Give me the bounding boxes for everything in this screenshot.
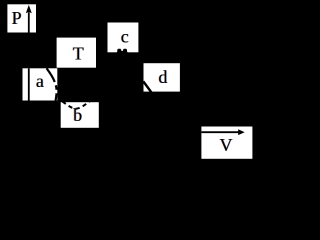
label box T (white) — [57, 38, 96, 68]
dashed cycle curve fragment at top of box b — [62, 101, 89, 109]
svg-text:b: b — [73, 105, 82, 125]
label box a (white) — [23, 68, 58, 100]
letter d — [158, 67, 168, 87]
letter P — [11, 8, 22, 28]
P axis arrowhead — [26, 5, 32, 13]
cycle curve fragment at corner of box d — [143, 81, 151, 92]
letter b — [73, 105, 83, 125]
V axis arrowhead — [238, 129, 245, 135]
letter V — [219, 135, 233, 155]
label box c (white) — [108, 23, 139, 53]
svg-text:V: V — [220, 135, 233, 155]
letter T — [72, 43, 84, 63]
letter a — [35, 71, 44, 91]
svg-text:T: T — [73, 43, 84, 63]
label box P (white) — [7, 4, 36, 32]
svg-text:P: P — [12, 8, 22, 28]
svg-text:c: c — [121, 26, 129, 46]
label box V (white) — [201, 127, 252, 159]
label box d (white) — [144, 63, 180, 91]
dashed cycle curve peak at bottom of box c — [116, 49, 129, 53]
svg-text:d: d — [158, 67, 167, 87]
letter c — [120, 26, 129, 46]
P axis shaft — [28, 13, 30, 33]
P axis segment in box a — [28, 68, 30, 100]
V axis shaft — [202, 131, 239, 133]
svg-text:a: a — [36, 71, 44, 91]
dashed cycle curve fragment in box a — [47, 68, 57, 100]
label box b (white) — [61, 102, 99, 128]
